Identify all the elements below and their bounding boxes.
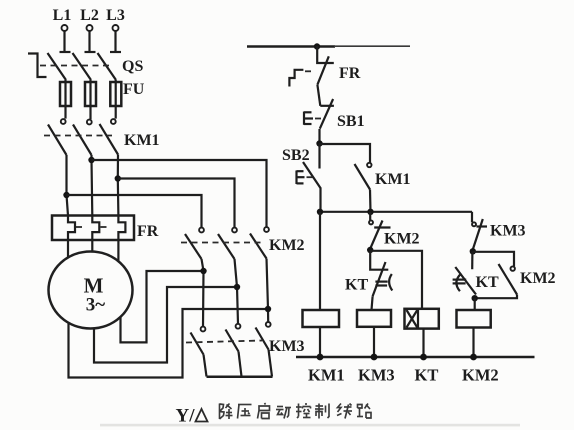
coil KT (time relay with X box) [405,309,439,357]
time relay KT delayed-opening NC contact [345,251,392,297]
FR NC contact (control) [289,46,360,106]
coil KM2 [457,310,491,328]
svg-text:KM3: KM3 [269,338,305,355]
svg-text:SB1: SB1 [337,113,365,130]
junction above KM2 coil [472,295,478,301]
thermal relay FR heaters [52,216,159,241]
junction below SB1 [316,140,322,146]
junction KM2 pole3 out [265,306,271,312]
junction below KM2 NC [367,247,373,253]
caption hanzi jiang [220,404,233,420]
node L2 [80,7,99,51]
pushbutton SB2 (start, NO) [282,144,321,212]
svg-text:KM3: KM3 [490,223,526,240]
junction KM1 coil bottom [317,354,324,361]
motor M 3~ [49,252,133,329]
wire control mid rail [320,211,473,213]
caption Y/triangle prefix [176,406,208,427]
junction KM2-NC branch [367,209,373,215]
svg-text:L1: L1 [53,7,72,24]
wire KM2 pole1 to KM3 pole1 [202,259,204,327]
wire motor lead V2 wrap to KM2 pole2 [94,287,237,363]
svg-text:QS: QS [122,58,143,75]
svg-text:KM3: KM3 [358,366,395,385]
junction phase C [115,175,121,181]
wire star point bar [207,376,273,379]
wire branch C to KM2 pole2 [118,179,235,228]
wire branch B to KM2 pole3 [92,160,267,227]
caption hanzi qi [258,403,270,419]
wire control top rail [247,45,335,48]
junction KM2 pole1 out [200,268,206,274]
wire to KM3 coil [372,296,373,310]
wire KM2 pole2 to KM3 pole2 [235,259,239,324]
caption hanzi lu [357,404,371,419]
contactor KM2 main contacts [181,227,305,259]
svg-text:3~: 3~ [86,295,106,316]
svg-text:KT: KT [415,366,439,385]
wire KM2 pole3 to KM3 pole3 [267,259,269,323]
caption hanzi kong [296,403,311,418]
fuse FU (3 cartridges) [60,80,145,119]
contactor KM2 aux NO contact (right) [473,252,556,298]
caption hanzi zhi [315,404,329,419]
svg-text:FR: FR [137,223,159,240]
svg-text:KT: KT [345,277,368,294]
junction KT coil bottom [420,354,427,361]
svg-text:KT: KT [476,274,499,291]
junction KM3 coil bottom [371,354,378,361]
caption hanzi dong [276,407,291,419]
junction KM1 coil branch [317,209,323,215]
junction below KM3 NC [470,248,476,254]
svg-text:L2: L2 [80,7,99,24]
junction phase A [63,192,69,198]
junction phase B [88,157,94,163]
junction top rail [314,43,320,49]
wire branch to KT coil [370,251,422,309]
node L3 [106,7,125,51]
wire phase C below KM1 [117,155,120,216]
svg-text:KM2: KM2 [384,231,420,248]
svg-text:FU: FU [123,81,145,98]
node L1 [53,7,72,51]
time relay KT delayed-closing NO contact [453,251,499,294]
svg-text:FR: FR [339,65,361,82]
coil KM3 [357,310,391,327]
wire phase B below KM1 [90,155,93,216]
svg-text:KM1: KM1 [308,366,345,385]
svg-text:Y/: Y/ [176,406,196,427]
wire motor lead U2 wrap to KM2 pole1 [121,271,204,342]
svg-text:KM2: KM2 [462,366,499,385]
caption hanzi ya [238,405,252,419]
wire to KM2 coil [474,298,476,310]
svg-text:SB2: SB2 [282,147,310,164]
contactor KM2 NC interlock contact [369,212,420,251]
junction KM2 pole2 out [234,284,240,290]
contactor KM3 main contacts (star) [186,322,305,377]
svg-text:KM2: KM2 [520,270,556,287]
caption hanzi xian [337,404,352,419]
wire motor lead W2 wrap to KM2 pole3 [69,309,269,378]
svg-text:KM1: KM1 [124,132,160,149]
disconnect switch QS [28,52,143,80]
wire branch A to KM2 pole1 [67,195,202,227]
contactor KM1 main contacts [44,119,160,155]
wire FR to motor (3 leads) [67,240,69,258]
wire phase A below KM1 [67,155,69,216]
wire to KM1 coil [319,212,321,310]
contactor KM1 holding contact (NO aux) [320,144,411,212]
svg-text:KM2: KM2 [269,237,305,254]
coil KM1 [303,310,340,327]
contactor KM3 NC interlock contact [472,212,526,252]
junction KM2 coil bottom [470,354,477,361]
pushbutton SB1 (stop, NC) [304,99,365,144]
wire control bottom rail [296,356,535,359]
svg-text:L3: L3 [106,7,125,24]
svg-text:KM1: KM1 [375,171,411,188]
